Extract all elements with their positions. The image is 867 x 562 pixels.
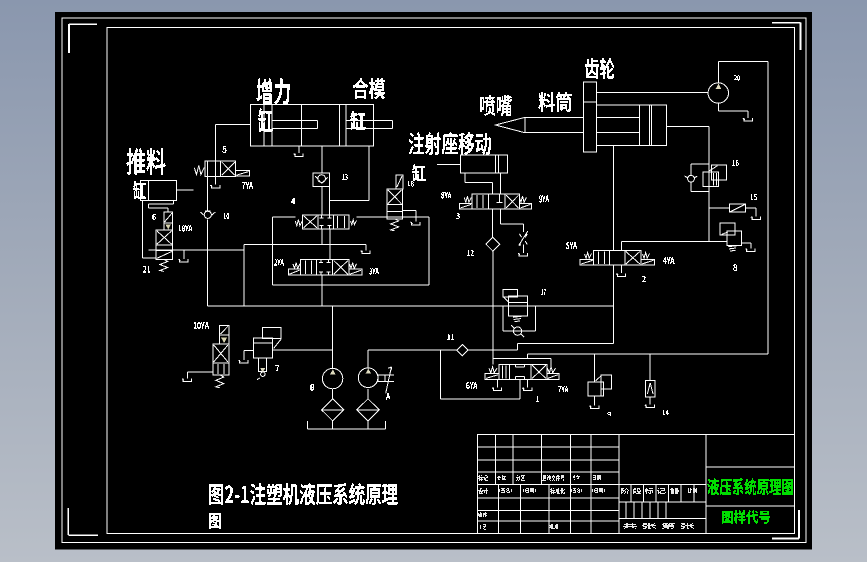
- motor 20 case drain: [718, 103, 752, 121]
- wire: pilot branch: [493, 359, 551, 367]
- tb bili: [688, 488, 697, 493]
- filter B: [322, 389, 344, 429]
- label 9: [607, 412, 611, 416]
- corner mark top-right: [772, 23, 801, 50]
- valve 6YA solenoid: [485, 374, 499, 380]
- ground under cylinder: [294, 146, 304, 157]
- corner mark bottom-left: [68, 508, 98, 535]
- label B: [310, 384, 314, 391]
- valve 1 solenoid 2YA: [288, 269, 300, 275]
- wire: valve 1 to bus: [321, 275, 323, 306]
- valve 2 body: [594, 251, 641, 266]
- cylinder: pusher (tui liao gang): [141, 181, 194, 201]
- caption line2: [209, 513, 221, 529]
- valve 3 solenoid 8YA: [460, 203, 473, 209]
- label 8YA: [441, 192, 451, 199]
- valve 5 body: [205, 161, 236, 176]
- corner mark bottom-right: [772, 510, 799, 539]
- valve 11 top check box: [220, 325, 229, 344]
- label 21: [143, 266, 150, 273]
- label 20: [734, 75, 740, 81]
- label 17: [541, 289, 546, 295]
- label 2: [642, 276, 646, 282]
- wire: pump B riser to bus: [332, 306, 334, 369]
- label 10: [224, 213, 229, 219]
- valve 1 return enclosure: [441, 350, 520, 399]
- cylinder: injection: [596, 105, 666, 146]
- pilot enclosure box around valves 4 and 1: [273, 217, 429, 285]
- wire: branch to throttle 15: [709, 207, 729, 209]
- tb pizhun: [549, 524, 558, 529]
- tb rq2: [592, 488, 605, 493]
- wire: valve 2 second port: [622, 242, 727, 251]
- valve 6YA spring left: [489, 367, 497, 373]
- wire: valve 5 to booster cylinder: [215, 124, 250, 161]
- tb biaoji: [478, 475, 488, 481]
- label A: [386, 393, 390, 400]
- wire: pump A pressure line: [368, 349, 457, 351]
- label 16: [732, 160, 739, 166]
- valve 1 drain left: [492, 379, 502, 390]
- label zengli: [256, 78, 290, 105]
- valve 2 spring left: [585, 253, 592, 259]
- tb gongyi: [480, 524, 486, 530]
- label tuiliao: [126, 148, 166, 175]
- wire: cylinder to valve 2: [613, 146, 615, 251]
- check element 6: [164, 212, 173, 230]
- label 15: [751, 194, 757, 200]
- check valve 10: [200, 211, 215, 219]
- tank: [307, 421, 385, 429]
- relief valve 9: [588, 354, 612, 409]
- label 5YA: [566, 242, 577, 249]
- valve 21 X-cell: [156, 230, 173, 245]
- valve 18 pilot box: [396, 175, 403, 189]
- relief valve 8 spring: [728, 246, 737, 251]
- wire: valve 4 port B to valve 1: [329, 229, 331, 260]
- label hemo: [353, 78, 385, 99]
- label gang1: [258, 108, 273, 132]
- valve 21 spring: [160, 259, 168, 271]
- nozzle (pen zui): [495, 117, 524, 132]
- caption line1: [209, 483, 398, 505]
- wire: valve 3 throttle branch: [500, 209, 523, 232]
- wire: motor 20 top loop: [718, 62, 768, 354]
- relief valve 17 spring: [513, 316, 522, 321]
- wire: injection cyl right port: [666, 126, 709, 128]
- corner mark top-left: [69, 24, 97, 53]
- label 7YA: [242, 182, 253, 189]
- label 4YA: [663, 257, 675, 264]
- valve 16 main box: [703, 172, 718, 187]
- wire: main right riser: [708, 127, 710, 242]
- wire: pusher cyl left port down: [142, 201, 155, 258]
- valve 4 spring right: [351, 220, 357, 225]
- pump A (variable): [358, 368, 378, 388]
- valve 18 lower box: [387, 205, 402, 219]
- relief valve 7 drain: [239, 351, 254, 363]
- label 7YA right: [558, 386, 568, 392]
- valve 16 bypass check: [685, 164, 710, 192]
- throttle 15: [729, 204, 745, 212]
- label 5: [222, 146, 227, 153]
- wire: valve 3 to check 12: [491, 209, 493, 237]
- tb chushu: [497, 475, 506, 480]
- label 6: [152, 214, 156, 220]
- check valve 12 (diamond): [486, 237, 500, 251]
- label 12: [467, 250, 474, 256]
- hydraulic motor 20: [708, 83, 728, 103]
- label penzui: [480, 95, 512, 116]
- valve 11 spring: [216, 375, 224, 388]
- valve 3 spring left: [464, 196, 471, 202]
- wire: valve2 bottom to y343: [612, 265, 614, 344]
- main drawing frame: [107, 28, 795, 534]
- pump B: [322, 368, 342, 388]
- valve 3 spring right: [519, 196, 526, 202]
- valve 3 body: [472, 194, 520, 209]
- label 13: [342, 174, 348, 180]
- tb gongzhang: [623, 523, 694, 529]
- valve 1 spring right: [350, 263, 357, 269]
- label 7: [275, 365, 279, 371]
- label liaotong: [538, 92, 572, 112]
- wire: return line: [528, 354, 769, 359]
- title text: hydraulic system schematic: [707, 478, 793, 495]
- tb qm2: [571, 488, 582, 493]
- label gang2: [350, 111, 366, 130]
- wire: valve 7 to pump B riser: [273, 349, 333, 351]
- valve 1 body (2YA/3YA): [300, 260, 349, 276]
- tb qm1: [499, 488, 512, 493]
- valve 4 spring left: [295, 220, 302, 226]
- relief valve 7 main box: [253, 338, 272, 358]
- tb shenhe: [478, 512, 487, 517]
- title block table: [477, 435, 794, 534]
- valve 18 drain: [402, 210, 420, 225]
- label 2YA: [274, 259, 284, 266]
- valve 16 pilot box: [709, 165, 727, 180]
- valve 1 body (6YA/7YA): [499, 364, 547, 379]
- label chilun: [585, 58, 614, 79]
- relief valve 8 pilot box: [720, 223, 735, 235]
- valve 5 drain: [210, 176, 220, 188]
- tb sheji: [478, 488, 488, 494]
- wire: pressure line to valve area: [468, 349, 517, 351]
- valve 7YA solenoid: [547, 374, 559, 380]
- wire: tank bus line: [207, 305, 613, 307]
- valve 1 spring left: [293, 263, 300, 269]
- valve 11 X box: [213, 344, 229, 363]
- relief valve 17 pilot box: [503, 289, 517, 302]
- label 8: [733, 264, 737, 271]
- label gang4: [133, 181, 146, 199]
- wire: check valve 13 to valve 4: [321, 187, 323, 215]
- valve 1 drain right: [522, 379, 532, 390]
- throttle valve (adjustable): [519, 231, 528, 245]
- label 4: [291, 198, 295, 204]
- wire: valve 4 port A down: [321, 229, 323, 245]
- label 3YA: [369, 268, 379, 275]
- tb riqi: [593, 475, 601, 480]
- relief valve 8 drain: [742, 243, 756, 252]
- valve 3 solenoid 9YA: [520, 203, 532, 209]
- wire: check 12 through bus to valve 1: [492, 251, 494, 364]
- wire: check valve 10 to bus: [206, 219, 208, 305]
- throttle 15 drain: [746, 208, 761, 219]
- barrel (liao tong): [525, 117, 584, 132]
- valve 11 drain: [182, 372, 213, 382]
- check valve 11 inline (diamond): [457, 345, 468, 356]
- relief valve 17 main box: [509, 296, 528, 316]
- wire: valve 21 drain branch: [173, 250, 188, 262]
- filter A: [357, 389, 379, 429]
- wire: clamp cylinder bypass loop: [330, 146, 370, 215]
- label 11: [447, 334, 454, 340]
- tb biaozhunhua: [550, 488, 565, 494]
- wire: seat cylinder bracket: [465, 173, 500, 194]
- label 18: [408, 181, 414, 187]
- label 10YA: [194, 322, 209, 329]
- wire: motor 20 gear line: [596, 91, 708, 93]
- valve 21 lower cell: [156, 245, 173, 250]
- label 14: [663, 410, 669, 415]
- cylinder: booster and clamp (zengli/hemo gang): [250, 104, 392, 146]
- valve 2 solenoid 4YA: [641, 259, 655, 265]
- tb zhongliang: [670, 488, 679, 494]
- valve 7YA spring right: [548, 367, 556, 373]
- wire: cylinder to check valve 13: [321, 146, 323, 173]
- wire: y343 link: [517, 344, 613, 351]
- label 9YA: [539, 195, 549, 203]
- label zhushezuoyidong: [409, 132, 491, 155]
- relief valve 7 lower box: [259, 358, 267, 371]
- valve 4 body: [303, 215, 350, 229]
- label 3: [456, 213, 460, 219]
- valve 2 spring right: [643, 253, 650, 259]
- tb jieduan: [621, 488, 666, 494]
- wire: line y250: [149, 249, 244, 251]
- cylinder: injection seat move: [437, 155, 507, 173]
- wire: pusher cyl step to valve 6: [149, 201, 174, 213]
- relief valve 17 loop and ball: [503, 306, 535, 337]
- tb fenqu: [516, 475, 525, 481]
- wire: pump A riser: [367, 350, 369, 368]
- tb qianzi: [573, 475, 580, 480]
- valve 2 solenoid 5YA: [580, 259, 594, 265]
- label gang3: [412, 164, 426, 181]
- tb rq1: [523, 488, 536, 493]
- valve 18 X box: [387, 189, 402, 205]
- wire: valve 5 down to check valve 10: [206, 176, 208, 211]
- valve 2 drain: [616, 265, 626, 276]
- valve 5 solenoid 7YA: [235, 171, 249, 177]
- label 18YA: [179, 225, 192, 232]
- valve 1 solenoid 3YA: [349, 269, 362, 275]
- label 1: [536, 396, 539, 402]
- relief valve 8 main box: [722, 231, 742, 246]
- relief valve 7 ball: [257, 372, 265, 380]
- valve 11 lower box: [213, 363, 229, 375]
- check valve 13: [313, 173, 330, 187]
- tb genggai: [542, 475, 564, 481]
- valve 21 solenoid: [156, 251, 173, 260]
- gear column (chi lun): [584, 82, 597, 152]
- wire: drain line y244: [244, 244, 370, 305]
- label 6YA: [466, 382, 477, 389]
- title text: drawing code: [722, 510, 770, 524]
- relief valve 7 pilot box: [263, 328, 282, 349]
- component 14 (filter/gauge): [645, 354, 655, 408]
- wire: throttle to drain: [518, 245, 528, 257]
- valve 5 spring: [194, 166, 204, 175]
- valve 18 spring: [391, 219, 399, 231]
